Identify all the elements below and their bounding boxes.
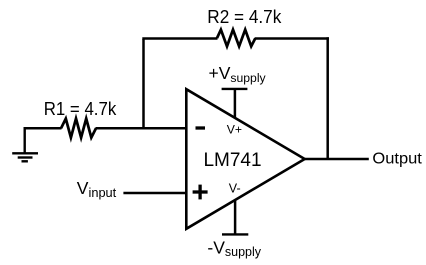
- non-inverting input plus symbol: [193, 185, 208, 200]
- negative supply rail bar: [222, 233, 248, 235]
- svg-text:-Vsupply: -Vsupply: [207, 237, 261, 259]
- node A feedback tap vertical wire: [142, 39, 145, 130]
- op-amp U1 triangle: [186, 89, 304, 229]
- positive supply rail bar: [222, 88, 248, 90]
- wire feedback top left segment: [142, 37, 217, 40]
- svg-text:R2 = 4.7k: R2 = 4.7k: [207, 6, 282, 27]
- wire R1 to inverting input: [96, 127, 187, 130]
- svg-text:V-: V-: [229, 181, 241, 195]
- resistor R2: [217, 30, 255, 47]
- wire feedback right vertical to output: [326, 37, 329, 159]
- svg-text:Vinput: Vinput: [77, 178, 117, 200]
- svg-text:Output: Output: [372, 150, 422, 167]
- negative supply stem wire: [234, 200, 237, 235]
- resistor R1: [61, 119, 96, 138]
- inverting input minus symbol: [196, 126, 206, 129]
- svg-text:LM741: LM741: [203, 150, 261, 171]
- output wire: [305, 158, 369, 161]
- svg-text:V+: V+: [227, 122, 242, 136]
- wire Vinput to non-inverting input: [123, 192, 186, 195]
- ground: [12, 127, 38, 161]
- svg-text:R1 = 4.7k: R1 = 4.7k: [44, 98, 117, 119]
- wire ground to R1: [24, 127, 62, 130]
- svg-text:+Vsupply: +Vsupply: [209, 63, 267, 85]
- positive supply stem wire: [234, 89, 237, 118]
- wire feedback top right segment: [255, 37, 329, 40]
